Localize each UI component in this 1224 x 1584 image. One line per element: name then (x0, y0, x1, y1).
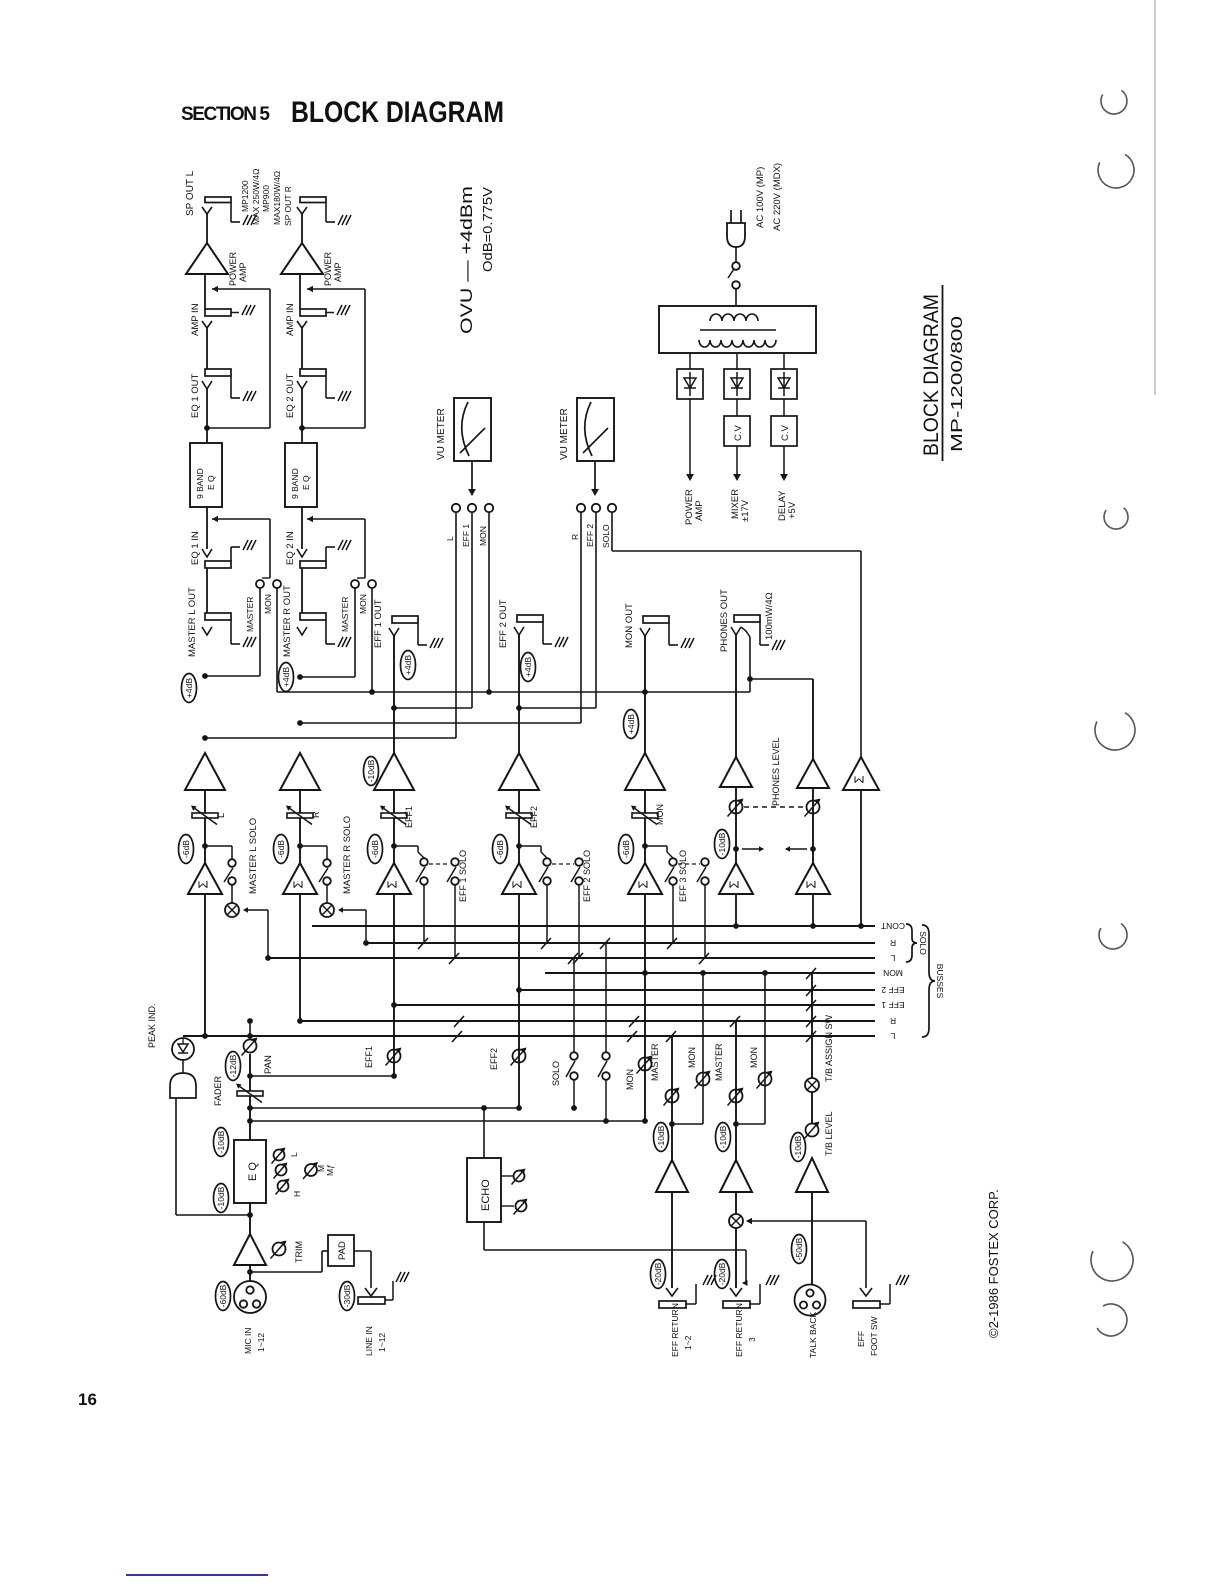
svg-text:EFF: EFF (856, 1331, 866, 1347)
wire SP OUT L to power amp (206, 214, 208, 243)
wire switch to mix R (326, 885, 328, 903)
svg-text:SP OUT R: SP OUT R (283, 186, 293, 226)
wire solo b down (605, 1080, 607, 1121)
wire EFF 3 SOLO a to solo bus (672, 885, 674, 943)
pot MASTER eff return 3 (730, 1090, 743, 1103)
wire eff return 3 to R bus (735, 1021, 737, 1160)
punch hole 1 (1101, 90, 1127, 114)
jack EQ 2 IN (297, 549, 307, 557)
peak detector (170, 1073, 196, 1098)
wire echo to return 3 (745, 1250, 747, 1283)
svg-text:MASTER: MASTER (714, 1043, 724, 1081)
fader R (287, 813, 313, 818)
jack EQ 1 OUT (205, 369, 231, 376)
level -6dB (EFF2) (493, 835, 508, 864)
svg-text:Σ: Σ (195, 880, 210, 888)
sum amp (EFF1) (377, 863, 411, 894)
punch hole 7 (1097, 1304, 1127, 1336)
svg-text:L: L (890, 1031, 895, 1041)
wire EFF 3 SOLO b to solo bus (704, 885, 706, 958)
svg-text:Σ: Σ (290, 880, 305, 888)
switch EFF 3 SOLO b (701, 858, 709, 866)
jack EQ 1 IN (202, 549, 212, 557)
svg-text:L: L (445, 536, 455, 541)
ground (SP OUT L) (243, 215, 248, 225)
punch hole 3 (1104, 508, 1128, 529)
pot EQ MF (305, 1164, 317, 1176)
svg-text:PAD: PAD (337, 1241, 348, 1260)
buffer amp (R) (280, 753, 320, 790)
pot TRIM (273, 1243, 286, 1256)
wire pan to R bus (249, 1021, 251, 1038)
svg-text:-10dB: -10dB (717, 832, 727, 855)
VU meter 1 (454, 398, 491, 461)
wire VU2-R drop (580, 512, 582, 723)
level -50dB talkback (792, 1235, 807, 1264)
jack EQ 2 OUT (300, 369, 326, 376)
svg-text:MON: MON (625, 1069, 635, 1090)
buffer amp phones A (720, 757, 752, 787)
wire EQ1 IN to MASTER L OUT jack (206, 568, 208, 613)
svg-text:MON: MON (883, 968, 903, 978)
switch EFF 1 SOLO a (420, 858, 428, 866)
node mon join ch2 (369, 689, 375, 695)
node solo sum cont (858, 923, 864, 929)
arrow into mixer L (244, 909, 268, 911)
normal branch wire R (302, 427, 365, 429)
VU2 terminal SOLO (608, 504, 616, 512)
level -10dB eff ret 1-2 (654, 1123, 669, 1152)
wire MASTER select 1 drop (259, 588, 261, 676)
node solo tap (L) (202, 843, 208, 849)
normal arrow into AMP IN L (212, 288, 270, 290)
amp TRIM (234, 1234, 266, 1265)
arrow foot switch control (747, 1220, 866, 1222)
switch EFF 2 SOLO a (543, 858, 551, 866)
arrow into mixer R (339, 909, 366, 911)
buffer amp (EFF2) (499, 753, 539, 790)
wire fader down (L) (204, 818, 206, 863)
brace BUSSES group (922, 925, 935, 1037)
svg-text:-10dB: -10dB (656, 1125, 666, 1148)
wire EFF 1 SOLO a to solo bus (423, 885, 425, 943)
wire phones tip to amp (735, 635, 737, 757)
svg-text:PAN: PAN (263, 1055, 274, 1074)
wire eff ret 1-2 amp to jack (671, 1192, 673, 1288)
pot MON eff return 1-2 (697, 1073, 710, 1086)
node phones A (733, 846, 739, 852)
wire solo a down (573, 1080, 575, 1108)
rectifier 1 (677, 369, 703, 399)
monitor select switch MON 2 (368, 580, 376, 588)
amp eff return 3 (720, 1160, 752, 1192)
svg-text:EFF2: EFF2 (489, 1048, 499, 1070)
wire power amp L input (204, 274, 206, 309)
level -10dB phones (715, 830, 730, 859)
wire phones ring to amp2 (750, 678, 813, 680)
svg-text:-10dB: -10dB (216, 1130, 226, 1153)
svg-text:VU METER: VU METER (436, 408, 447, 460)
ground (MON OUT) (681, 638, 686, 648)
svg-text:BLOCK DIAGRAM: BLOCK DIAGRAM (291, 96, 504, 129)
level +4dB master L (182, 674, 197, 703)
svg-text:-10dB: -10dB (366, 759, 376, 782)
fader channel (237, 1091, 263, 1096)
normal arrow into EQ 2 IN (307, 518, 365, 520)
node phones B (810, 846, 816, 852)
wire EFF 2 SOLO b to solo bus (578, 885, 580, 958)
node master L (202, 673, 208, 679)
jack EFF 2 OUT (517, 615, 543, 622)
fader EFF1 (381, 813, 407, 818)
solo inject mixer L (225, 903, 239, 917)
svg-text:1~12: 1~12 (377, 1333, 387, 1352)
wire EFF 2 SOLO a to solo bus (546, 885, 548, 943)
ground (EFF RETURN 1-2) (703, 1275, 708, 1285)
effect ECHO box (467, 1158, 501, 1222)
power switch (732, 262, 740, 270)
svg-text:Σ: Σ (384, 880, 399, 888)
svg-text:MP900: MP900 (261, 185, 271, 212)
wire VU1-MON drop (488, 512, 490, 692)
jack SP OUT R (300, 197, 326, 203)
normal arrow into AMP IN R (307, 288, 365, 290)
jack PHONES OUT (734, 615, 760, 622)
wire power amp R input (299, 274, 301, 309)
ground (MASTER R OUT) (338, 637, 343, 647)
wire master R sum to R bus (299, 894, 301, 1021)
pot EFF2 send (513, 1050, 526, 1063)
svg-text:AC 220V (MDX): AC 220V (MDX) (772, 163, 783, 231)
wire AMP IN to EQ2 OUT (301, 328, 303, 369)
wire master select line R (300, 676, 355, 678)
svg-text:-6dB: -6dB (495, 840, 505, 858)
bus SOLO L (268, 957, 875, 959)
svg-text:ECHO: ECHO (480, 1179, 492, 1211)
bus EFF 1 (394, 1004, 875, 1006)
svg-text:EFF RETURN: EFF RETURN (670, 1303, 680, 1357)
wire mute to jack (735, 1228, 737, 1288)
transformer core line (700, 329, 776, 331)
dashed gang EFF 2 SOLO (552, 863, 574, 865)
dashed gang EFF 1 SOLO (429, 863, 450, 865)
level -20dB eff ret 3 (715, 1260, 730, 1289)
svg-text:±17V: ±17V (740, 499, 751, 522)
node eff ret 1-2 mon branch (669, 1121, 675, 1127)
svg-text:EQ 2 IN: EQ 2 IN (285, 531, 296, 565)
svg-text:R: R (311, 811, 321, 818)
level -6dB (MON) (619, 835, 634, 864)
svg-text:FOOT SW: FOOT SW (869, 1316, 879, 1356)
wire talkback amp to mic (811, 1192, 813, 1285)
wire phones A to CONT bus (735, 894, 737, 926)
level +4dB master R (279, 663, 294, 692)
gang dashed link phones (744, 806, 805, 808)
level -60dB mic (216, 1282, 231, 1311)
svg-text:+4dB: +4dB (523, 657, 533, 677)
wire eff return 1-2 to L bus (671, 1036, 673, 1160)
svg-text:POWER: POWER (228, 251, 238, 286)
wire mon send (250, 1120, 645, 1122)
punch hole 4 (1095, 713, 1135, 750)
svg-text:©2-1986 FOSTEX CORP.: ©2-1986 FOSTEX CORP. (986, 1189, 1001, 1338)
svg-text:9 BAND: 9 BAND (290, 468, 300, 499)
svg-text:MAX180W/4Ω: MAX180W/4Ω (272, 171, 282, 225)
svg-text:-30dB: -30dB (342, 1284, 352, 1307)
svg-text:+4dB: +4dB (626, 714, 636, 734)
assign tick Lb (627, 1031, 637, 1042)
svg-text:MIC IN: MIC IN (243, 1328, 253, 1354)
pot EQ H (278, 1181, 289, 1192)
svg-text:MON: MON (263, 594, 273, 614)
pot MASTER eff return 1-2 (666, 1090, 679, 1103)
wire eff ret 3 amp to mute (735, 1192, 737, 1214)
arrow supply MIXER (736, 446, 738, 478)
wire amp to fader (MON) (644, 790, 646, 813)
level +4dB eff1 (401, 651, 416, 680)
svg-text:MON: MON (749, 1047, 759, 1068)
VU1 terminal L (452, 504, 460, 512)
9 BAND EQ box 2 (285, 443, 317, 507)
ground (AMP IN R) (337, 305, 342, 315)
svg-text:EFF1: EFF1 (404, 806, 414, 828)
svg-text:EQ 2 OUT: EQ 2 OUT (285, 373, 296, 418)
wire phones ring contact (749, 637, 751, 692)
wire rectifier3 to CV3 (783, 399, 785, 416)
svg-text:-10dB: -10dB (718, 1125, 728, 1148)
node R meter tap (297, 720, 303, 726)
svg-text:R: R (570, 534, 580, 540)
wire plug to switch (735, 247, 737, 262)
wire MON OUT down (644, 636, 646, 753)
fader MON (632, 813, 658, 818)
svg-text:MASTER R OUT: MASTER R OUT (282, 585, 293, 657)
svg-text:Mƒ: Mƒ (325, 1164, 335, 1176)
tick TB eff1 (806, 1000, 816, 1011)
wire talkback to MON bus (811, 973, 813, 1078)
svg-text:MON: MON (478, 526, 488, 546)
svg-text:C.V: C.V (780, 425, 791, 442)
wire EFF1 OUT down (393, 636, 395, 753)
punch hole 6 (1091, 1242, 1133, 1281)
peak indicator LED (172, 1038, 194, 1060)
svg-text:-6dB: -6dB (621, 840, 631, 858)
monitor select switch MASTER 1 (256, 580, 264, 588)
sum amp (MON) (628, 863, 662, 894)
VU2 terminal EFF2 (592, 504, 600, 512)
switch EFF 2 SOLO b (575, 858, 583, 866)
arrow VU meter 2 drive (594, 461, 596, 494)
jack AMP IN R (300, 309, 326, 316)
node EQ2 out junction (299, 425, 305, 431)
arrow supply POWER AMP (689, 399, 691, 478)
svg-text:TRIM: TRIM (294, 1241, 304, 1263)
pot T/B LEVEL (806, 1124, 819, 1137)
mute mixer eff return 3 (729, 1214, 743, 1228)
svg-text:EFF 2: EFF 2 (585, 524, 595, 547)
node solo tap (EFF2) (516, 843, 522, 849)
switch solo a (570, 1052, 578, 1060)
sum amp phones A (719, 863, 753, 894)
sum amp (EFF2) (502, 863, 536, 894)
svg-text:MAX 250W/4Ω: MAX 250W/4Ω (251, 169, 261, 225)
wire switch to mix L (231, 885, 233, 903)
node eff2 send tap (247, 1105, 253, 1111)
wire EQ1 OUT to EQ box (206, 389, 208, 443)
monitor select switch MON 1 (273, 580, 281, 588)
wire eff2 send (250, 1107, 519, 1109)
svg-text:EFF 1 SOLO: EFF 1 SOLO (458, 850, 468, 902)
assign tick La (452, 1031, 462, 1042)
svg-text:16: 16 (78, 1390, 97, 1409)
ground (MASTER L OUT) (243, 637, 248, 647)
jack AMP IN L (205, 309, 231, 316)
jack EFF RETURN 3 (730, 1288, 742, 1296)
9 BAND EQ box 1 (190, 443, 222, 507)
node solo tap (EFF1) (391, 843, 397, 849)
svg-text:AC 100V (MP): AC 100V (MP) (755, 167, 766, 228)
wire SP OUT R to power amp (301, 214, 303, 243)
svg-text:+4dB: +4dB (403, 655, 413, 675)
svg-text:EFF RETURN: EFF RETURN (734, 1303, 744, 1357)
branch EFF 3 SOLO a (645, 845, 667, 847)
AC plug (730, 210, 732, 223)
wire VU1-L drop (455, 512, 457, 738)
node peak tap (247, 1212, 253, 1218)
svg-text:EFF1: EFF1 (364, 1046, 374, 1068)
punch hole 2 (1098, 154, 1134, 188)
wire peak tap (175, 1098, 177, 1215)
svg-text:+4dB: +4dB (281, 667, 291, 687)
svg-text:-60dB: -60dB (218, 1284, 228, 1307)
buffer amp phones B (797, 759, 829, 788)
bus R (300, 1020, 875, 1022)
wire amp to fader (L) (204, 790, 206, 813)
svg-text:MASTER L OUT: MASTER L OUT (187, 587, 198, 657)
svg-text:FADER: FADER (213, 1075, 223, 1106)
ground (LINE IN) (396, 1272, 401, 1282)
jack SP OUT L (205, 197, 231, 203)
node L meter tap (202, 735, 208, 741)
svg-text:EFF 3 SOLO: EFF 3 SOLO (678, 850, 688, 902)
branch EFF 1 SOLO a (394, 845, 418, 847)
svg-text:-6dB: -6dB (276, 840, 286, 858)
svg-text:H: H (292, 1191, 302, 1197)
wire eff1 send (250, 1075, 394, 1077)
jack EFF RETURN 1-2 (666, 1288, 678, 1296)
solo sum amp (843, 757, 879, 790)
svg-text:L: L (890, 953, 895, 963)
svg-text:L: L (289, 1152, 299, 1157)
pot echo A (501, 1175, 513, 1177)
channel EQ box (234, 1140, 266, 1203)
svg-text:SOLO: SOLO (918, 931, 928, 955)
monitor select switch MASTER 2 (351, 580, 359, 588)
level -30dB line (340, 1282, 355, 1311)
power amp R (triangle) (281, 243, 323, 274)
pot PHONES LEVEL A (730, 801, 743, 814)
svg-text:9 BAND: 9 BAND (195, 468, 205, 499)
switch solo b (602, 1052, 610, 1060)
pot EFF1 send (388, 1050, 401, 1063)
svg-text:AMP IN: AMP IN (190, 303, 201, 336)
pot EQ L (274, 1150, 285, 1161)
svg-text:-10dB: -10dB (793, 1135, 803, 1158)
wire master L sum to L bus (204, 894, 206, 1036)
amp talkback (796, 1158, 828, 1192)
wire MON select 1 drop (276, 588, 278, 692)
wire mon sum to MON bus (644, 894, 646, 1121)
svg-text:CONT: CONT (881, 921, 905, 931)
svg-text:BLOCK DIAGRAM: BLOCK DIAGRAM (920, 294, 943, 456)
svg-text:3: 3 (747, 1337, 757, 1342)
level -10dB talkback (791, 1133, 806, 1162)
svg-text:MASTER R SOLO: MASTER R SOLO (342, 816, 353, 894)
svg-text:PEAK IND.: PEAK IND. (147, 1003, 157, 1048)
svg-text:MASTER L SOLO: MASTER L SOLO (248, 818, 259, 894)
ground (EQ 1 IN) (243, 540, 248, 550)
switch MASTER R SOLO (323, 859, 331, 867)
normal branch wire L (207, 427, 270, 429)
wire EFF1 to meter (394, 707, 472, 709)
svg-text:1~12: 1~12 (256, 1333, 266, 1352)
svg-text:EQ 1 IN: EQ 1 IN (190, 531, 201, 565)
level -10dB eff ret 3 (716, 1123, 731, 1152)
svg-text:EQ 1 OUT: EQ 1 OUT (190, 373, 201, 418)
normal arrow into EQ 1 IN (212, 518, 270, 520)
svg-text:E Q: E Q (206, 475, 216, 490)
wire fader down (EFF1) (393, 818, 395, 863)
footer blue line (126, 1574, 268, 1576)
wire MASTER select 2 drop (354, 588, 356, 677)
svg-text:EFF 2 OUT: EFF 2 OUT (498, 599, 509, 648)
ground (PHONES OUT) (772, 640, 777, 650)
bus SOLO R (366, 942, 875, 944)
VU2 terminal R (577, 504, 585, 512)
bus L (183, 1035, 875, 1037)
wire EFF2 OUT down (518, 635, 520, 753)
wire to PAD (250, 1271, 322, 1273)
transformer box (659, 306, 816, 353)
bus CONT (312, 925, 875, 927)
level -10dB eff1 master (364, 757, 379, 786)
branch to master R solo switch (300, 845, 327, 847)
svg-text:AMP: AMP (238, 262, 248, 282)
node eff1 send tap (247, 1073, 253, 1079)
svg-text:AMP IN: AMP IN (285, 303, 296, 336)
wire EQ2 OUT to EQ box (301, 389, 303, 443)
wire switch to transformer (735, 289, 737, 306)
switch MASTER L SOLO (228, 859, 236, 867)
level +4dB eff2 (521, 653, 536, 682)
branch to master L solo switch (205, 845, 232, 847)
jack MON OUT (643, 616, 669, 623)
wire L solo feed (267, 910, 269, 958)
jack MASTER L OUT (205, 613, 231, 620)
level -12dB pan (226, 1052, 241, 1081)
svg-text:MON: MON (655, 804, 665, 825)
svg-text:Σ: Σ (509, 880, 524, 888)
punch hole 5 (1099, 924, 1127, 950)
arrow supply DELAY (783, 446, 785, 478)
svg-text:EFF 1: EFF 1 (881, 1000, 904, 1010)
VU1 terminal MON (485, 504, 493, 512)
ground (EFF 2 OUT) (555, 637, 560, 647)
svg-text:MASTER: MASTER (245, 597, 255, 632)
sum amp (R) (283, 863, 317, 894)
buffer amp (L) (185, 753, 225, 790)
wire solo a up (573, 958, 575, 1052)
